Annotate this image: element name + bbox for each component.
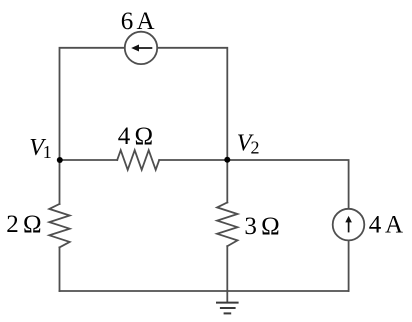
svg-text:2 Ω: 2 Ω — [6, 211, 41, 238]
svg-text:3 Ω: 3 Ω — [244, 213, 279, 240]
svg-text:4 A: 4 A — [369, 212, 403, 239]
svg-text:1: 1 — [43, 142, 52, 162]
svg-text:6 A: 6 A — [121, 8, 155, 35]
svg-text:2: 2 — [251, 138, 260, 158]
svg-text:4 Ω: 4 Ω — [118, 123, 153, 150]
